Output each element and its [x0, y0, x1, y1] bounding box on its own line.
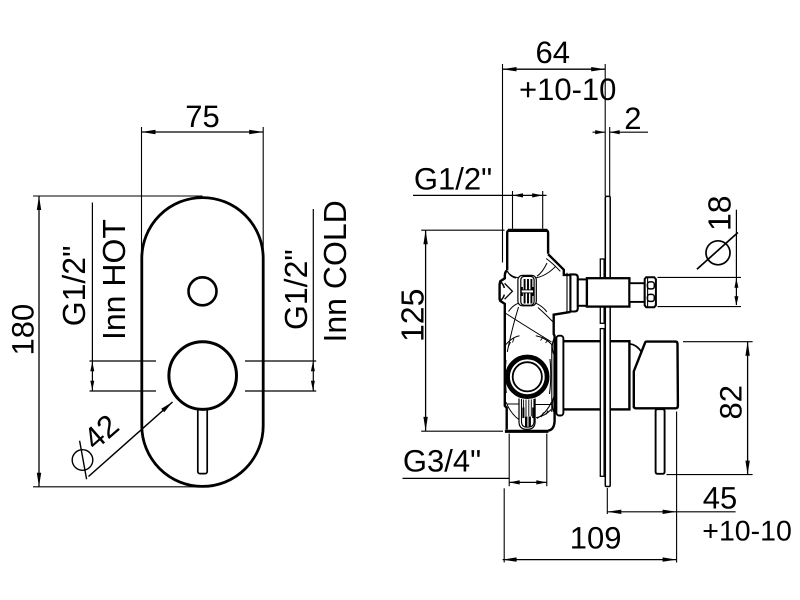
diverter button [189, 277, 217, 305]
dimension 82 line [747, 342, 749, 475]
diameter 42 leader arrowhead [161, 402, 172, 412]
extension line 75 left [141, 127, 143, 251]
wall plate (2mm) [605, 196, 610, 486]
casting wing bottom knurl left [509, 303, 519, 311]
svg-text:180: 180 [6, 304, 41, 356]
svg-text:64: 64 [536, 35, 570, 70]
spindle end nut [645, 277, 656, 307]
nut facet upper [647, 282, 654, 289]
extension line 64 left [502, 64, 504, 263]
G3/4 dimension line [509, 481, 547, 483]
dimension 82 extension bottom [667, 474, 753, 476]
shoulder inner parallel line [546, 259, 560, 272]
casting rope upper right of ring [536, 336, 552, 345]
diameter 42 symbol circle [72, 450, 93, 471]
left small dimension line [91, 203, 93, 392]
arrow 64 right [591, 67, 605, 71]
svg-text:75: 75 [185, 99, 219, 134]
top thread boss outer [518, 275, 536, 305]
valve body right outline lower [548, 312, 570, 431]
bottom thread shaft lines [524, 400, 532, 417]
G1/2 extension lines [513, 191, 543, 229]
svg-text:Inn COLD: Inn COLD [317, 200, 353, 342]
extension line 64 right / plate face [604, 64, 606, 196]
grip neck fillet curve [630, 344, 642, 352]
bottom thread boss outer U [519, 399, 535, 430]
casting sweep curve mid body [505, 313, 551, 342]
svg-text:G3/4": G3/4" [403, 444, 481, 479]
casting wing top knurl right [536, 266, 556, 278]
arrow 109 left [503, 557, 517, 561]
casting arc hugging ring right [550, 359, 551, 394]
diameter 18 extension lines [658, 277, 742, 306]
casting rope lower right of ring [536, 410, 551, 418]
dimension 125 line [425, 230, 427, 431]
mounting sleeve rear bar upper [600, 259, 604, 323]
arrow 75 left [142, 130, 156, 134]
svg-text:Inn HOT: Inn HOT [96, 219, 132, 340]
dimension 180 line [38, 196, 40, 487]
casting wing bottom knurl right [536, 303, 547, 312]
svg-text:+10-10: +10-10 [519, 72, 616, 107]
left small dimension arrows [90, 362, 94, 372]
casting curve below ring right [537, 402, 552, 419]
arrow 125 top [423, 230, 427, 244]
oval face plate [142, 198, 263, 487]
spindle block through plate [587, 278, 630, 306]
nut facet lower [647, 294, 654, 301]
bottom thread side shadows [522, 408, 524, 419]
casting curve port to body right [537, 263, 547, 276]
svg-text:+10-10: +10-10 [702, 516, 792, 548]
G3/4 leader line [403, 477, 510, 479]
dimension 2 lines and arrows [593, 131, 649, 133]
extension line 180 bottom [33, 486, 203, 488]
arrow 180 top [37, 196, 41, 210]
arrow 45 right [663, 510, 677, 514]
G3/4 arrows [509, 480, 520, 484]
casting curve below ring left [506, 402, 519, 420]
extension line handle right [676, 412, 678, 563]
G1/2 leader and dimension line [413, 194, 547, 196]
diameter 18 dimension line [735, 210, 737, 305]
inlet boss chevron detail [505, 283, 513, 299]
casting arc hugging ring left [504, 360, 507, 393]
outlet ring inner circle [513, 362, 542, 391]
extension line plate face below [606, 488, 608, 514]
dimension 45 line [607, 511, 735, 513]
svg-text:G1/2": G1/2" [278, 249, 314, 330]
top thread middle white band [521, 290, 533, 293]
arrow 75 right [249, 130, 263, 134]
valve body left outline with inlet boss [500, 270, 508, 429]
arrow 64 left [503, 67, 517, 71]
arrow 180 bottom [37, 473, 41, 487]
extension line 180 top [33, 195, 203, 197]
svg-text:2: 2 [624, 101, 641, 136]
svg-text:82: 82 [714, 385, 749, 419]
G3/4 extension lines [509, 434, 547, 487]
extension line plate rear face [609, 127, 611, 196]
top port thick top edge [508, 229, 547, 232]
cartridge collar flange [570, 274, 577, 311]
inner right face line [551, 344, 553, 412]
diameter 42 symbol slash [80, 441, 87, 479]
flange left step line [566, 273, 568, 313]
svg-text:G1/2": G1/2" [56, 246, 92, 327]
valve body right shoulder upper [548, 254, 570, 275]
right small dimension arrows [311, 362, 315, 372]
extension line 125 bottom [421, 430, 503, 432]
outlet ring thick annulus [508, 357, 548, 397]
diameter 18 symbol circle [706, 241, 730, 265]
casting wing top knurl left [508, 272, 519, 278]
dimension 82 extension top [683, 341, 753, 343]
casting curve mid left [507, 307, 518, 352]
mounting sleeve rear bar lower [600, 329, 604, 477]
casting curve port to body left [508, 271, 517, 278]
arrow 82 bottom [745, 461, 749, 475]
top thread boss inner [521, 276, 534, 305]
G1/2 arrows [513, 193, 524, 197]
inlet boss shading arcs [501, 282, 505, 288]
lower knurl side shelf lines [507, 403, 552, 406]
svg-text:45: 45 [703, 480, 737, 515]
right small dimension line [312, 209, 314, 391]
handle washer flange [556, 336, 563, 416]
casting curve mid right [538, 308, 554, 323]
bottom thread boss inner U [522, 399, 535, 427]
valve body top port [507, 230, 548, 270]
mixer knob circle [169, 342, 237, 410]
nut collar line [647, 278, 649, 308]
handle stem rod [656, 409, 665, 474]
handle grip head [634, 342, 678, 409]
casting wedge right face upper [552, 338, 554, 354]
bottom thread bars [526, 417, 530, 427]
extension line 109 left [503, 488, 505, 562]
dimension 64 line [503, 68, 606, 70]
arrow 125 bottom [423, 417, 427, 431]
top thread side shadows [521, 287, 523, 296]
spindle thin rod [629, 283, 644, 302]
valve body bottom edge [505, 430, 549, 433]
inlet reference line lower [90, 390, 317, 392]
arrow 109 right [663, 557, 677, 561]
diameter 42 leader line [89, 402, 173, 477]
handle base cylinder [561, 341, 629, 409]
inlet reference line upper [90, 360, 317, 362]
top thread bars [525, 279, 532, 304]
dimension 75 line [142, 131, 264, 133]
svg-text:109: 109 [570, 521, 622, 556]
diameter 18 arrows [734, 278, 738, 288]
spindle first section [578, 279, 587, 305]
casting rope upper left of ring [506, 336, 520, 345]
extension line 75 right [262, 127, 264, 251]
extension line 125 top [421, 229, 504, 231]
arrow 45 left [607, 510, 621, 514]
casting wedge right face lower [552, 396, 554, 412]
svg-text:18: 18 [702, 195, 738, 231]
dimension 109 line [503, 559, 677, 561]
lever handle shaft [198, 395, 207, 474]
svg-text:G1/2": G1/2" [414, 161, 492, 196]
diameter 18 symbol slash [697, 233, 738, 270]
arrow 82 top [745, 342, 749, 356]
